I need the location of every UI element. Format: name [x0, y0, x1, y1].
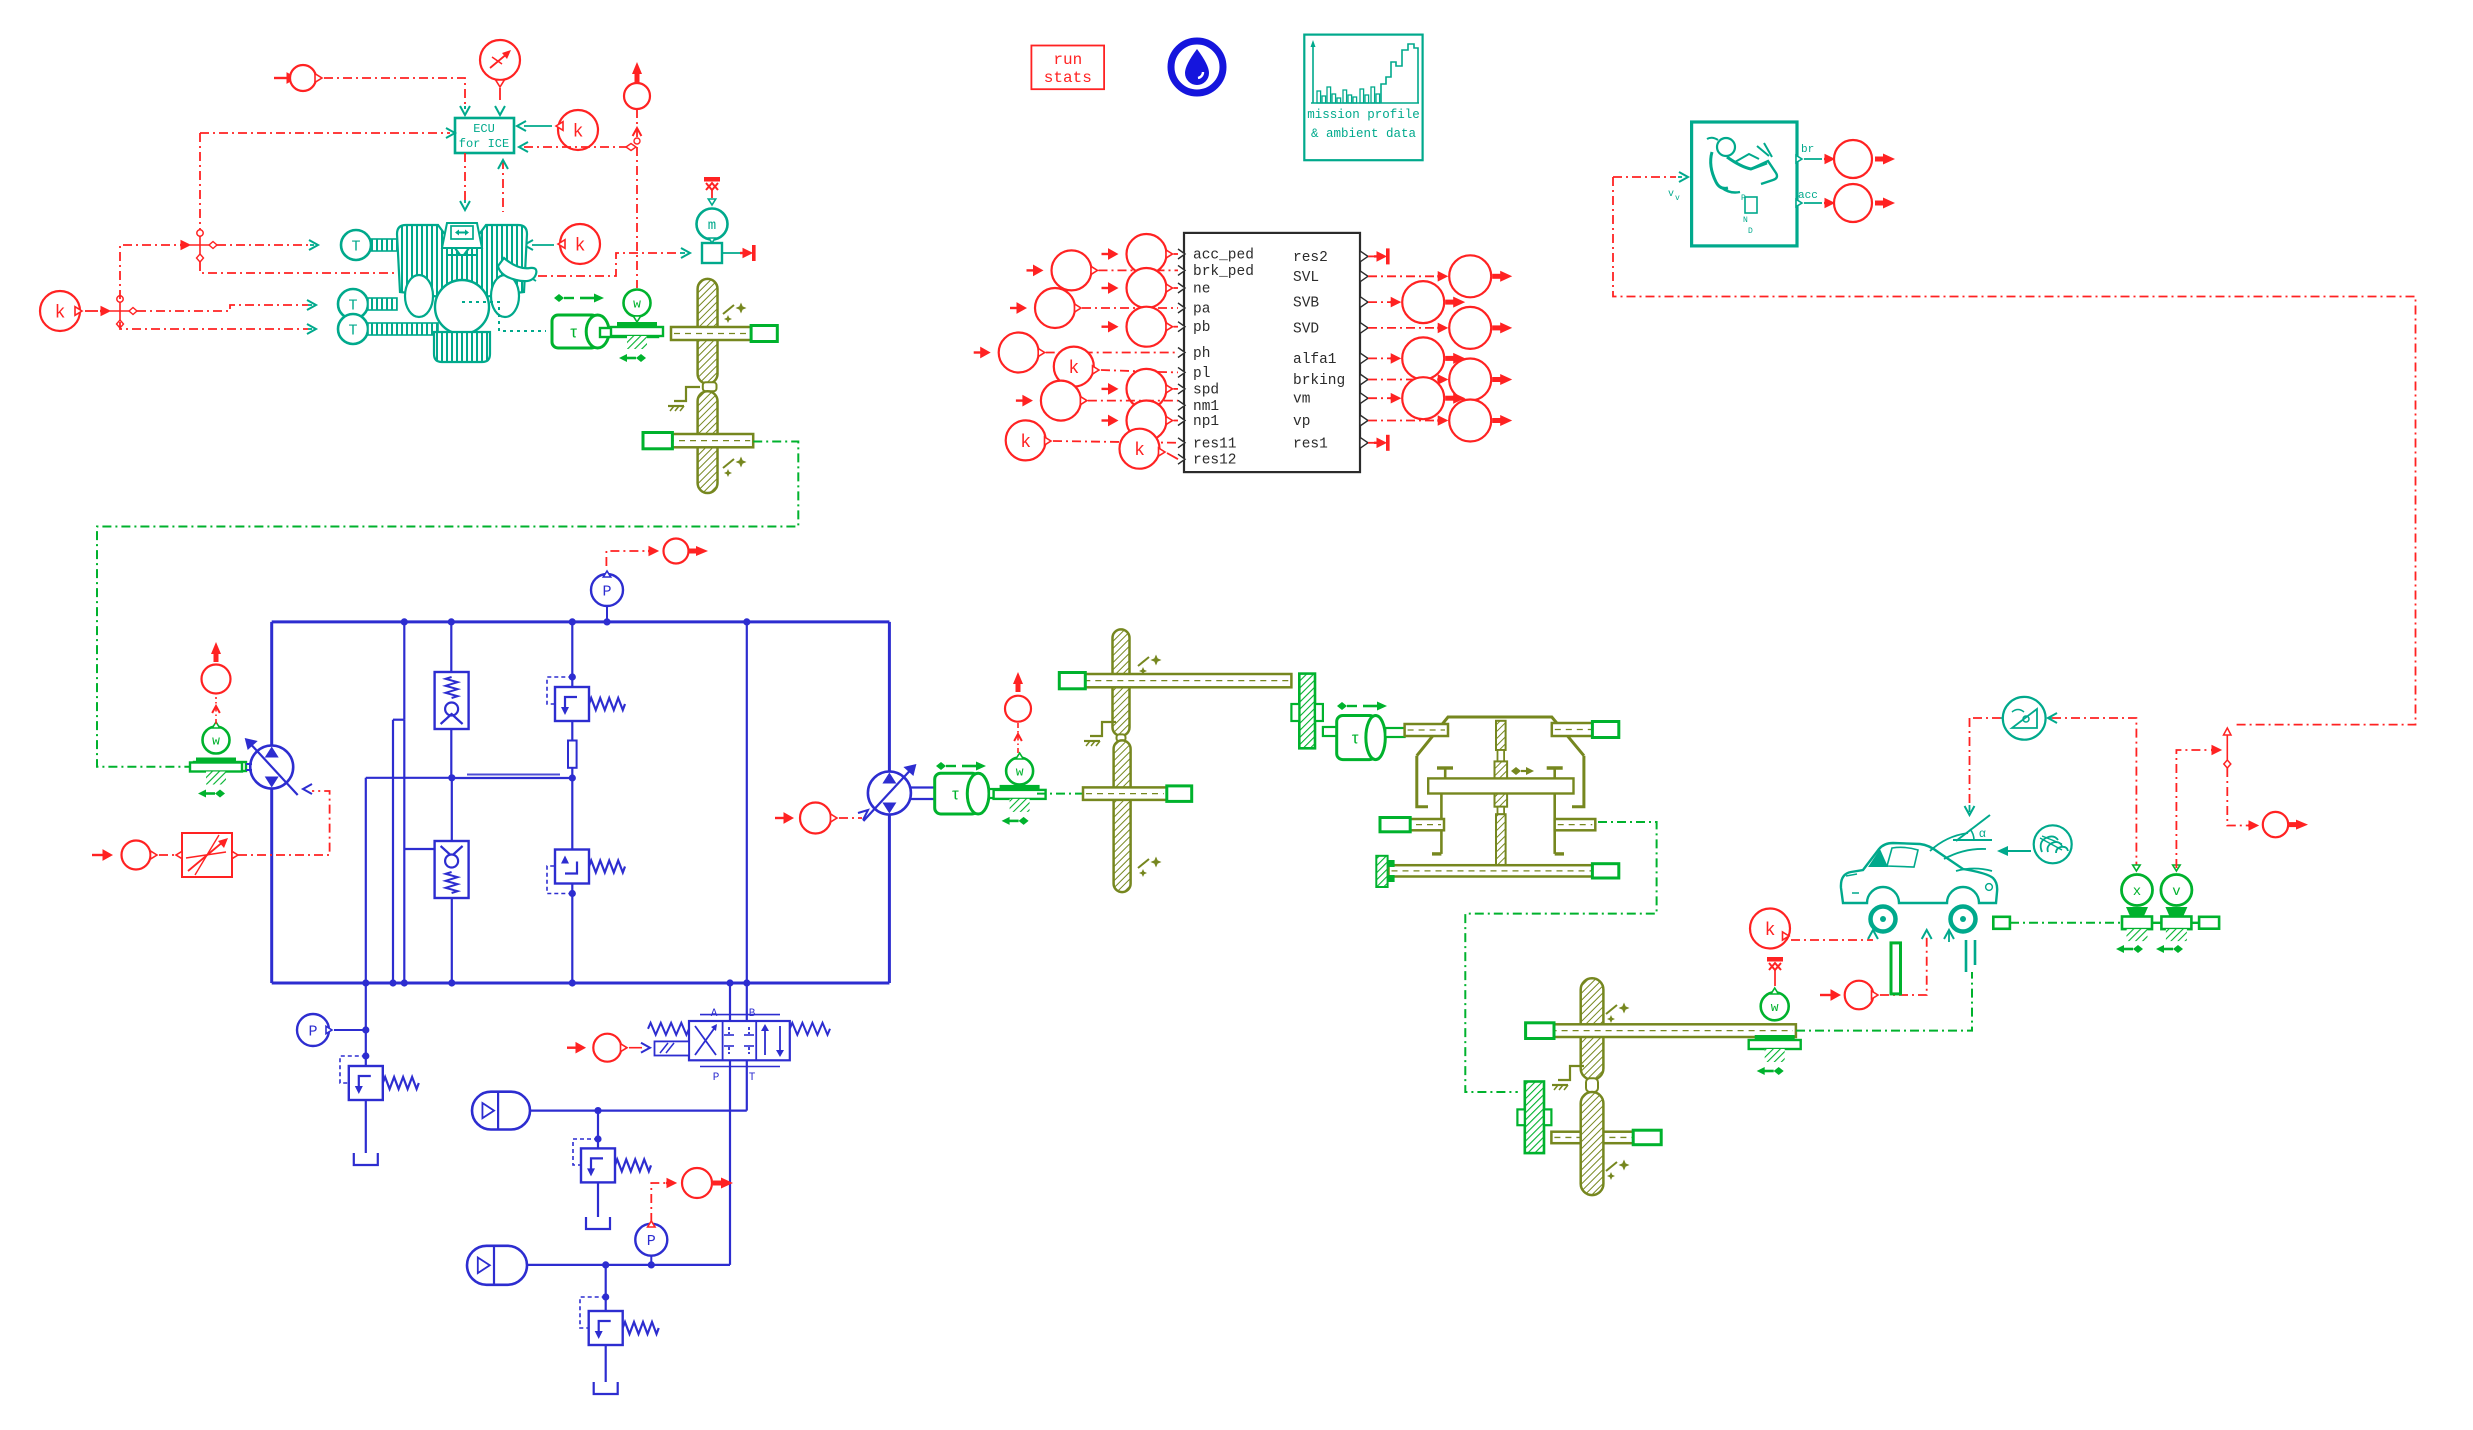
relief valve RV-A (top): [571, 622, 573, 687]
svg-text:ne: ne: [1193, 282, 1210, 298]
input source brk_ped: [1034, 265, 1043, 275]
input source ne: [1109, 283, 1118, 293]
wheel force lines under rear wheel: [1965, 940, 1968, 972]
torque sensor T1: [341, 230, 371, 260]
check valve CV2: [451, 778, 453, 841]
accumulator 1: [472, 1092, 530, 1130]
output res2 terminator: [1368, 255, 1374, 257]
svg-text:k: k: [575, 236, 586, 256]
relief valve RV3 to tank (below accumulator 2): [605, 1265, 607, 1311]
gear pair 1 upper gear: [698, 279, 718, 384]
wire pi to ECU top input 2: [495, 106, 505, 115]
output SVL: [1368, 275, 1443, 277]
final gear ground bracket: [1558, 1066, 1584, 1080]
svg-text:acc: acc: [1798, 190, 1818, 202]
differential input shaft top: [1405, 724, 1448, 736]
gear1 neck: [703, 382, 717, 391]
m sensor circle: [708, 199, 715, 205]
svg-text:T: T: [348, 322, 357, 339]
svg-text:m: m: [708, 218, 716, 234]
wire ECU to engine throttle: [464, 153, 466, 200]
svg-text:P: P: [713, 1072, 720, 1084]
speed output circle near P gauge (top of hydraulics): [606, 551, 648, 566]
input source spd: [1109, 384, 1118, 394]
svg-text:P: P: [647, 1233, 656, 1250]
svg-text:SVB: SVB: [1293, 296, 1319, 312]
differential ground (bottom left): [1376, 856, 1387, 887]
pressure gauge P2 (lower left) + relief RV1 to tank: [365, 778, 367, 1066]
torque converter tau2: [936, 762, 946, 770]
wire J1 down to T sensor 3: [120, 322, 308, 329]
relief valve RV2 to tank: [597, 1111, 599, 1149]
motor swash control wire: [784, 813, 793, 823]
svg-text:τ: τ: [570, 323, 577, 342]
svg-text:α: α: [1979, 826, 1986, 840]
long feedback wire vehicle speed to driver: [1613, 176, 1676, 178]
final gear lower shaft: [1551, 1132, 1661, 1144]
junction node J2: [190, 244, 210, 246]
svg-text:nm1: nm1: [1193, 399, 1219, 415]
gear pair 1 lower gear: [698, 391, 718, 493]
svg-text:k: k: [573, 122, 584, 142]
svg-text:stats: stats: [1044, 69, 1092, 87]
wire long left input to ECU: [200, 132, 450, 134]
m sensor output terminator: [722, 252, 742, 254]
vertical signal bus x=637 (omega1 speed): [636, 109, 638, 288]
directional valve 4/3: [689, 1021, 790, 1060]
torque converter tau3: [1337, 702, 1347, 710]
input source pl (k): [1054, 347, 1094, 387]
input circle to rear wheel: [1831, 990, 1840, 1000]
svg-text:res1: res1: [1293, 436, 1328, 452]
motor output shaft: [911, 786, 934, 788]
output SVD: [1368, 327, 1443, 329]
speed sensor V: [2173, 865, 2180, 871]
differential right-mid shaft: [1555, 819, 1596, 830]
gear1 mesh sparkles upper: [736, 303, 747, 314]
wire J2 right to T sensor 1: [217, 244, 310, 246]
svg-text:τ: τ: [952, 785, 959, 804]
output circle above w2: [215, 697, 217, 724]
duty-cycle source circle (pi): [480, 40, 520, 80]
torque converter tau1: [554, 294, 564, 302]
valve pilot input circle: [576, 1043, 585, 1053]
car output green box: [1993, 917, 2010, 929]
svg-text:D: D: [1748, 227, 1753, 236]
input source np1: [1109, 416, 1118, 426]
pressure gauge P3 + output circle: [651, 1183, 666, 1222]
m sensor square body: [702, 243, 722, 263]
relief valve RV-B (bottom): [571, 778, 573, 850]
bypass columns x=393/404: [403, 622, 405, 720]
road post under front wheel: [1891, 943, 1901, 994]
svg-text:for ICE: for ICE: [459, 137, 509, 151]
hydraulic bottom bus line: [272, 982, 890, 985]
junction dots top bus: [401, 618, 408, 625]
svg-text:ECU: ECU: [473, 122, 495, 136]
input source pa: [1017, 303, 1026, 313]
svg-text:T: T: [348, 297, 357, 314]
svg-text:v: v: [1668, 189, 1674, 200]
gear2 sparkles upper: [1151, 655, 1162, 666]
gear1 shaft upper: [671, 327, 777, 340]
svg-text:w: w: [1771, 1000, 1779, 1015]
svg-text:w: w: [212, 734, 220, 749]
middle cross line: [366, 777, 452, 779]
gear2 upper shaft: [1059, 674, 1291, 687]
pump shaft rotary mount + speed sensor w2: [194, 762, 246, 771]
svg-text:v: v: [1675, 194, 1680, 203]
green wire final gear shaft to car rear wheel: [1796, 972, 1972, 1031]
fluid properties drop icon: [1171, 41, 1223, 93]
svg-text:k: k: [1765, 921, 1776, 941]
run stats block: [1031, 46, 1104, 90]
differential shift arrows: [1511, 767, 1521, 775]
wind resistance sensor: [2034, 825, 2072, 863]
differential left-mid shaft: [1380, 819, 1444, 830]
orifice below RV-A: [571, 721, 573, 741]
svg-text:pb: pb: [1193, 320, 1210, 336]
shaft coupling to tau3: [1323, 727, 1337, 736]
left vertical pump branch: [270, 622, 273, 746]
svg-text:vm: vm: [1293, 392, 1310, 408]
elastic coupling (gear2 to tau3): [1299, 674, 1315, 749]
gear2 neck: [1117, 734, 1126, 741]
output vp: [1368, 420, 1443, 422]
slope angle symbol at car: [1953, 839, 1992, 841]
constant k to front wheel: [1750, 909, 1790, 949]
svg-text:vp: vp: [1293, 414, 1310, 430]
gear1 ground bracket: [674, 387, 700, 401]
control I/O block: [1184, 233, 1360, 472]
junction node J1: [110, 310, 130, 312]
engine crank dotted link: [462, 302, 546, 331]
pump swash control wire: [238, 791, 330, 855]
output brking: [1368, 379, 1443, 381]
svg-text:pa: pa: [1193, 302, 1211, 318]
green link tau2 shaft to gear2: [1037, 793, 1083, 795]
differential housing: [1417, 717, 1584, 756]
junction dots bottom bus: [362, 979, 369, 986]
svg-text:w: w: [1016, 765, 1024, 780]
variable pump (left): [250, 746, 293, 789]
svg-text:ph: ph: [1193, 346, 1210, 362]
wire k to ECU right input: [524, 125, 552, 127]
svg-text:k: k: [1068, 359, 1079, 379]
wire J1 up to J2: [120, 245, 178, 299]
speed sensor omega1: [624, 290, 651, 317]
wire source to ECU top input 1: [324, 78, 465, 106]
shaft tau1 to gear1: [600, 328, 658, 337]
svg-text:k: k: [1134, 441, 1145, 461]
svg-text:acc_ped: acc_ped: [1193, 248, 1254, 264]
accumulator 2: [467, 1246, 527, 1285]
rotary mount + w4 on final shaft: [1755, 1035, 1795, 1040]
final gear sparkles upper: [1619, 1003, 1630, 1014]
wire engine port to m-valve: [528, 271, 536, 281]
final gear pair upper gear: [1581, 978, 1604, 1079]
junction node right: [2224, 728, 2232, 735]
green feedback wire differential to final gear: [1465, 822, 1656, 1092]
svg-text:x: x: [2133, 884, 2141, 900]
svg-text:P: P: [602, 583, 611, 600]
output alfa1: [1368, 357, 1396, 359]
torque sensor T2: [338, 289, 368, 319]
wire engine to ECU feedback: [502, 160, 504, 212]
wire V sensor up to junction: [2176, 750, 2210, 868]
hydraulic top bus line: [272, 620, 890, 623]
input source res12 (k): [1120, 429, 1160, 469]
svg-text:τ: τ: [1352, 729, 1359, 748]
green wire car to X/V rod: [2010, 922, 2122, 924]
variable motor (right): [868, 772, 911, 815]
differential bottom shaft: [1389, 865, 1619, 876]
gear2 sparkles lower: [1151, 857, 1162, 868]
svg-text:mission profile: mission profile: [1307, 108, 1420, 122]
svg-text:P: P: [308, 1023, 317, 1040]
svg-text:res12: res12: [1193, 453, 1237, 469]
svg-text:SVD: SVD: [1293, 321, 1319, 337]
final gear sparkles lower: [1619, 1160, 1630, 1171]
final gear neck: [1586, 1078, 1598, 1092]
svg-text:run: run: [1053, 51, 1082, 69]
gear2 ground bracket: [1090, 722, 1116, 736]
input source ph: [981, 348, 990, 358]
pressure gauge P1 (top): [606, 605, 608, 622]
wire J2 down to engine intake port: [200, 262, 404, 273]
input source acc_ped: [1109, 249, 1118, 259]
constant k source right of ECU: [558, 110, 598, 150]
svg-text:SVL: SVL: [1293, 270, 1319, 286]
rotary mount + w3 sensor on tau2 shaft: [1004, 789, 1037, 798]
output circle above vertical bus (top): [624, 83, 650, 109]
input circle to ratio block: [103, 850, 112, 860]
car body: [1841, 843, 1997, 903]
signal ratio block: [182, 833, 232, 877]
gear1 shaft lower: [643, 434, 753, 447]
wire ECU lower-right input from vertical bus: [519, 142, 528, 152]
svg-text:& ambient data: & ambient data: [1311, 127, 1417, 141]
position sensor X: [2133, 865, 2140, 871]
svg-text:np1: np1: [1193, 414, 1219, 430]
output res1 terminator: [1368, 442, 1374, 444]
svg-text:brk_ped: brk_ped: [1193, 264, 1254, 280]
svg-text:brking: brking: [1293, 373, 1345, 389]
differential carrier bar: [1428, 778, 1573, 793]
gear pair 2 upper gear: [1113, 629, 1130, 736]
svg-text:k: k: [1020, 433, 1031, 453]
svg-text:B: B: [749, 1008, 756, 1020]
gear1 mesh sparkles lower: [736, 457, 747, 468]
green feedback wire gear1 to pump shaft: [97, 442, 798, 767]
output SVB: [1368, 301, 1396, 303]
constant k source far left: [40, 291, 80, 331]
engine ICE icon: [397, 225, 466, 300]
ECU for ICE block: [455, 118, 514, 153]
svg-text:pl: pl: [1193, 366, 1210, 382]
svg-text:v: v: [2172, 884, 2180, 900]
svg-text:N: N: [1743, 216, 1748, 225]
svg-text:br: br: [1801, 144, 1814, 156]
svg-text:res2: res2: [1293, 250, 1328, 266]
wire junction to output circle: [2227, 768, 2248, 826]
differential top-right shaft: [1552, 723, 1619, 736]
wire x-sensor to slope generator: [2052, 718, 2136, 866]
wire J1 right to T sensor 2: [137, 305, 308, 311]
input source res11 (k): [1006, 420, 1046, 460]
gear2 lower shaft: [1083, 787, 1167, 800]
final gear upper shaft: [1526, 1024, 1796, 1037]
final gear pair lower gear: [1581, 1092, 1604, 1195]
mission profile & ambient data block: [1304, 35, 1422, 161]
check valve CV1: [450, 622, 452, 672]
driver mission block: [1692, 122, 1797, 246]
output circle above w3: [1017, 723, 1019, 753]
mass-stop symbol above m sensor: [704, 177, 720, 182]
svg-text:T: T: [351, 238, 360, 255]
X/V linear mounts on rod: [2126, 907, 2148, 916]
constant k source right of engine: [560, 224, 600, 264]
torque sensor T3: [338, 314, 368, 344]
svg-text:spd: spd: [1193, 382, 1219, 398]
differential hangers: [1440, 794, 1443, 854]
output vm: [1368, 397, 1396, 399]
input source pb: [1109, 322, 1118, 332]
gear pair 2 lower gear: [1114, 740, 1131, 892]
svg-text:T: T: [749, 1072, 756, 1084]
svg-text:k: k: [55, 303, 66, 323]
svg-text:alfa1: alfa1: [1293, 352, 1337, 368]
right vertical motor branch: [888, 622, 891, 772]
svg-text:A: A: [711, 1008, 718, 1020]
road slope generator circle: [1969, 718, 1971, 805]
elastic coupling 2 (input of final gear): [1525, 1082, 1544, 1154]
input source nm1: [1023, 396, 1032, 406]
mass-stop above w4: [1767, 957, 1783, 962]
differential central vertical shaft: [1496, 721, 1506, 750]
svg-text:P: P: [1741, 194, 1746, 203]
svg-text:w: w: [633, 297, 641, 312]
svg-text:res11: res11: [1193, 436, 1237, 452]
valve port lines: [729, 983, 731, 1021]
signal input source circle (top-left): [287, 73, 296, 83]
